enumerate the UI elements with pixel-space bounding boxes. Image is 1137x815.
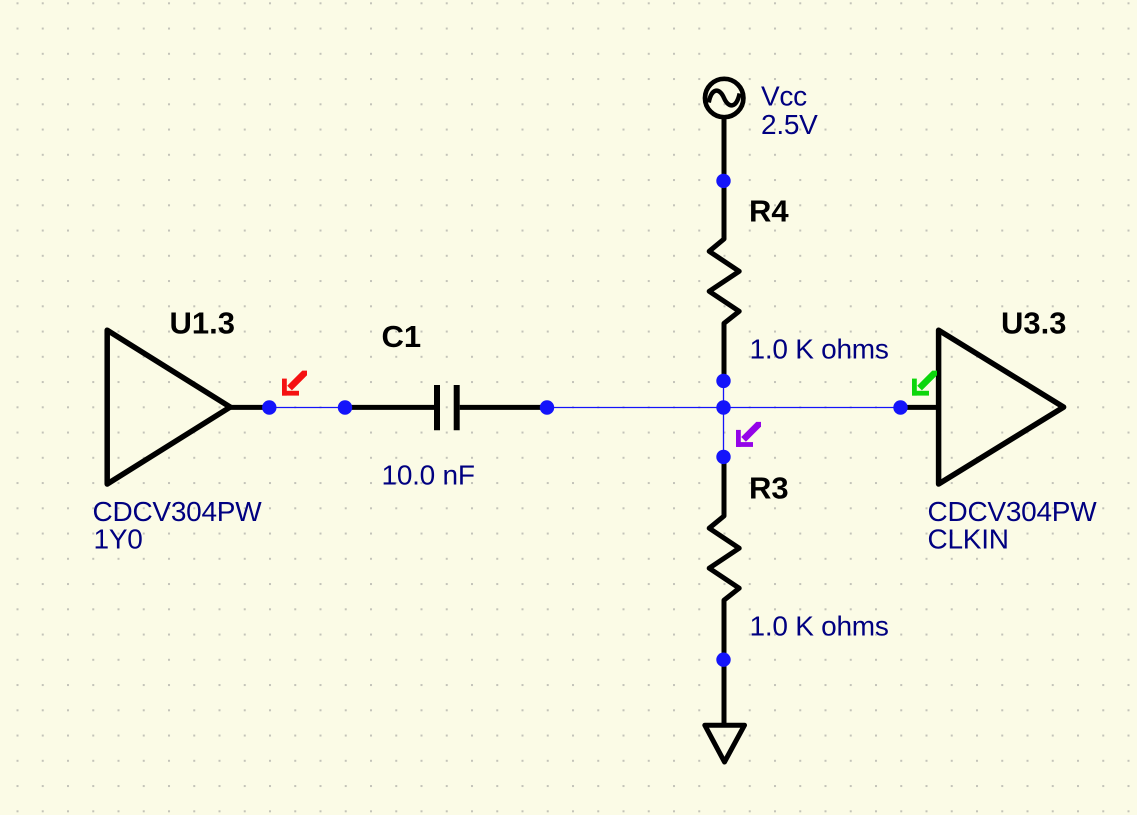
ground [705, 725, 745, 762]
wire R3 to ground [722, 660, 727, 724]
wire Vcc to node [722, 117, 727, 181]
svg-text:1.0 K ohms: 1.0 K ohms [750, 333, 889, 364]
wire (blue net) R4 to R3 through node [723, 381, 725, 457]
svg-text:1Y0: 1Y0 [94, 523, 143, 554]
junction dot (C1 left) [338, 400, 352, 414]
wire node to U3 [901, 405, 939, 410]
svg-text:1.0 K ohms: 1.0 K ohms [750, 610, 889, 641]
svg-text:Vcc: Vcc [761, 80, 807, 111]
junction dot (R3 bottom) [716, 653, 730, 667]
buffer U3.3 (triangle) [939, 330, 1064, 484]
svg-text:CLKIN: CLKIN [928, 523, 1009, 554]
svg-text:2.5V: 2.5V [761, 109, 818, 140]
wire (blue net) C1 to center node [547, 407, 901, 409]
node center junction [716, 400, 730, 414]
junction dot (U3 input) [893, 400, 907, 414]
power source V1 (Vcc symbol) [705, 79, 743, 117]
svg-text:CDCV304PW: CDCV304PW [928, 496, 1098, 527]
svg-text:CDCV304PW: CDCV304PW [93, 496, 263, 527]
svg-text:R4: R4 [749, 193, 789, 228]
svg-text:U3.3: U3.3 [1001, 306, 1066, 341]
wire into C1 left [345, 405, 434, 410]
wire U1 output [228, 405, 269, 410]
svg-text:10.0 nF: 10.0 nF [382, 459, 475, 490]
junction dot (R4 bottom) [716, 374, 730, 388]
svg-text:R3: R3 [749, 471, 789, 506]
wire C1 right [460, 405, 547, 410]
junction dot (U1 output) [262, 400, 276, 414]
junction dot (R3 top) [716, 450, 730, 464]
junction dot (C1 right) [540, 400, 554, 414]
wire (blue net) U1 to C1 [269, 407, 345, 409]
capacitor C1 [437, 385, 457, 430]
svg-text:C1: C1 [382, 319, 422, 354]
svg-text:U1.3: U1.3 [170, 305, 235, 340]
resistor R4 [709, 181, 739, 381]
buffer U1.3 (triangle) [107, 330, 230, 484]
junction dot (Vcc-R4) [716, 174, 730, 188]
marker arrow purple (node) [736, 422, 761, 447]
marker arrow green (U3 input) [912, 371, 937, 396]
resistor R3 [709, 457, 739, 660]
marker arrow red (U1 output) [282, 371, 307, 396]
